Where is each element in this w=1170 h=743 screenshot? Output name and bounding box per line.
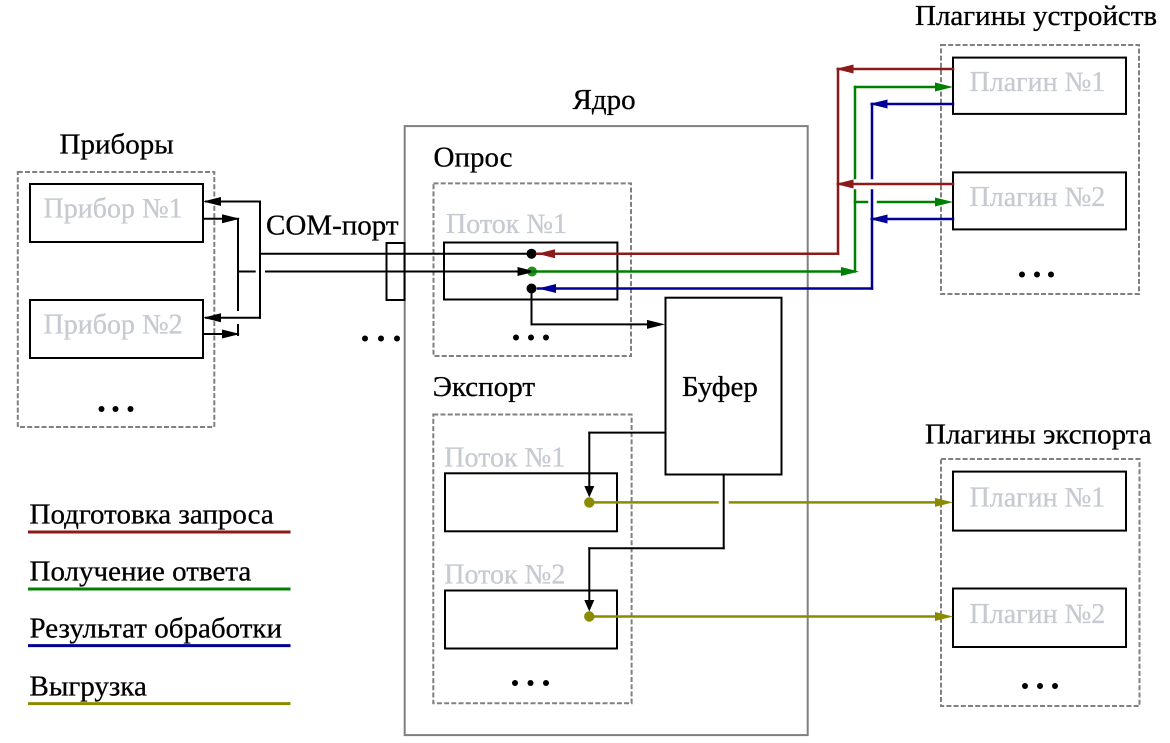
svg-text:Плагин №2: Плагин №2 [970, 599, 1106, 630]
svg-text:Поток №1: Поток №1 [444, 443, 565, 474]
svg-text:Поток №1: Поток №1 [446, 209, 567, 240]
svg-text:Результат обработки: Результат обработки [30, 612, 283, 644]
svg-text:Приборы: Приборы [60, 129, 174, 161]
svg-text:Экспорт: Экспорт [433, 371, 536, 403]
svg-text:Подготовка запроса: Подготовка запроса [30, 499, 274, 531]
svg-text:Поток №2: Поток №2 [444, 560, 565, 591]
svg-text:Получение ответа: Получение ответа [30, 556, 252, 588]
svg-text:Ядро: Ядро [573, 84, 636, 116]
svg-text:COM-порт: COM-порт [266, 210, 399, 242]
svg-text:Прибор №2: Прибор №2 [44, 310, 183, 341]
svg-text:Прибор №1: Прибор №1 [44, 194, 183, 225]
svg-text:Плагины устройств: Плагины устройств [915, 0, 1157, 32]
svg-text:Плагины экспорта: Плагины экспорта [925, 419, 1152, 451]
svg-text:Плагин №1: Плагин №1 [970, 67, 1106, 98]
svg-text:Буфер: Буфер [682, 371, 758, 403]
svg-text:Плагин №2: Плагин №2 [970, 182, 1106, 213]
svg-text:Выгрузка: Выгрузка [30, 670, 147, 702]
svg-text:Опрос: Опрос [434, 142, 513, 174]
svg-text:Плагин №1: Плагин №1 [970, 482, 1106, 513]
